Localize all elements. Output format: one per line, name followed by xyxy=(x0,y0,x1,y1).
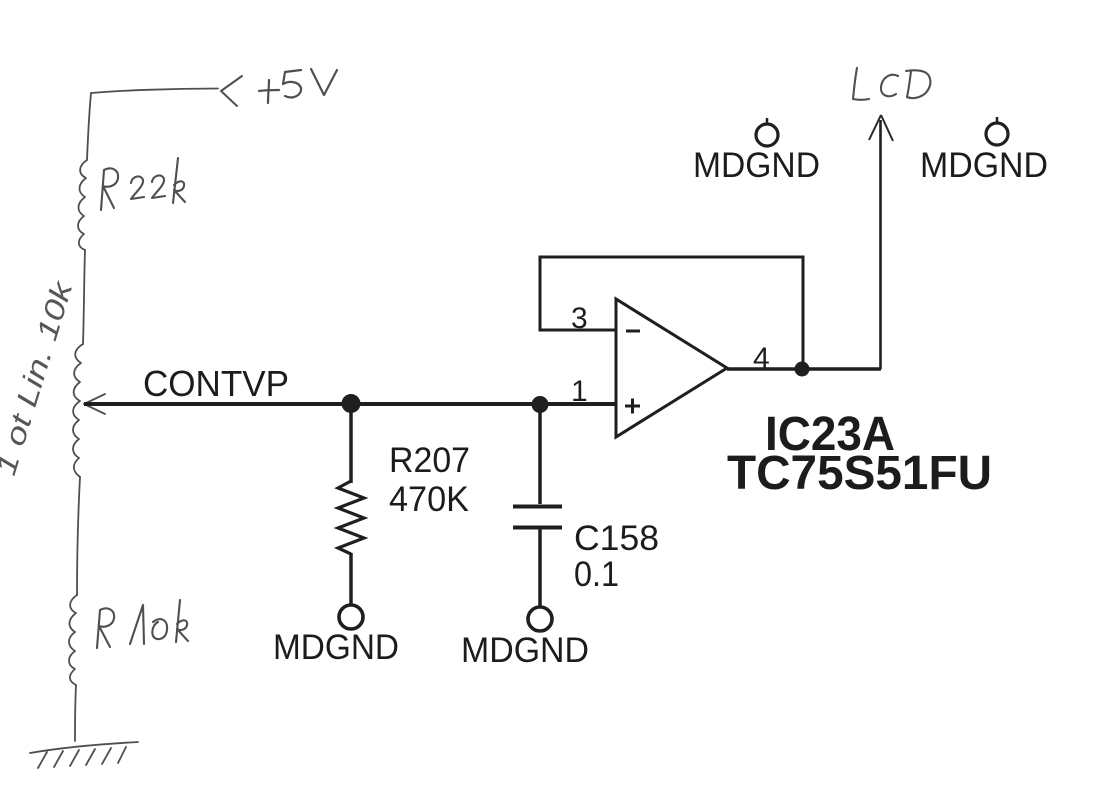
terminal circle MDGND (below R207) xyxy=(339,605,363,629)
R 22k value label (handwritten) xyxy=(101,158,185,210)
wire R10k to ground (hand-drawn) xyxy=(75,685,76,741)
wire junction to C158 xyxy=(538,404,542,504)
terminal circle MDGND (below C158) xyxy=(528,607,552,631)
potentiometer wiper arrow (hand-drawn barbs) xyxy=(84,394,105,414)
op-amp U IC23A triangle xyxy=(616,299,727,437)
terminal circle MDGND (top left) xyxy=(756,124,778,146)
svg-text:470K: 470K xyxy=(389,480,469,519)
svg-text:R207: R207 xyxy=(389,441,470,480)
LCD arrowhead xyxy=(869,115,893,141)
op-amp plus input mark xyxy=(625,399,640,414)
wire junction to R207 xyxy=(349,403,353,483)
+5V arrowhead (hand-drawn) xyxy=(221,76,242,106)
resistor R207 xyxy=(338,481,364,554)
junction at output xyxy=(795,362,810,377)
wire pot to R10k (hand-drawn) xyxy=(77,477,80,595)
wire R22k to potentiometer (hand-drawn) xyxy=(83,250,85,344)
capacitor C158 xyxy=(513,505,562,509)
svg-text:MDGND: MDGND xyxy=(693,146,820,185)
LCD label (handwritten) xyxy=(853,68,930,100)
potentiometer body squiggle (hand-drawn, Lin. 10k) xyxy=(73,344,83,477)
svg-text:MDGND: MDGND xyxy=(461,631,589,670)
feedback wire (output to pin 3) xyxy=(540,257,803,369)
svg-text:0.1: 0.1 xyxy=(574,555,619,594)
resistor R 10k (hand-drawn squiggle) xyxy=(69,595,77,685)
wire C158 to terminal xyxy=(538,527,542,606)
svg-text:1: 1 xyxy=(571,375,588,408)
wire CONTVP (main horizontal net) xyxy=(84,402,617,406)
op-amp minus input mark xyxy=(626,330,640,333)
svg-text:CONTVP: CONTVP xyxy=(143,363,289,404)
terminal stub (top right) xyxy=(996,117,999,123)
junction at R207 xyxy=(342,394,361,413)
terminal circle MDGND (top right) xyxy=(986,123,1008,145)
output wire pin 4 xyxy=(727,367,881,371)
svg-text:TC75S51FU: TC75S51FU xyxy=(727,447,992,500)
wire R207 to terminal xyxy=(349,553,353,604)
wire from +5V corner down to R22k (hand-drawn) xyxy=(87,93,91,160)
wire +5V feed (hand-drawn) xyxy=(91,89,218,94)
svg-text:MDGND: MDGND xyxy=(273,628,399,667)
svg-text:C158: C158 xyxy=(574,519,659,558)
svg-text:MDGND: MDGND xyxy=(920,146,1048,185)
ground (hand-drawn) xyxy=(30,742,138,768)
+5V label (handwritten) xyxy=(259,69,337,103)
wire to LCD (vertical) xyxy=(879,120,882,369)
R 10k value label (handwritten) xyxy=(97,600,188,648)
junction at C158 xyxy=(532,396,549,413)
terminal stub (top left) xyxy=(766,118,769,124)
resistor R 22k (hand-drawn squiggle) xyxy=(78,160,87,250)
